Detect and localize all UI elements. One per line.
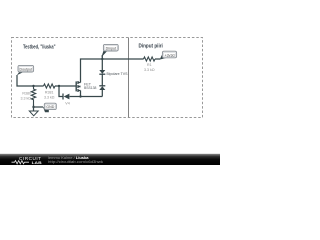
svg-text:Dinput piiri: Dinput piiri (139, 44, 164, 50)
divider line between Testbed and Dinput piiri (128, 38, 130, 118)
diode D1 bipolar TVS (99, 59, 128, 97)
wire from Doutput flag down and right to gate net (17, 75, 44, 86)
wire V4 branch down (59, 86, 63, 97)
svg-text:+3v3d: +3v3d (165, 53, 175, 57)
flag Dinput (101, 44, 118, 59)
svg-text:R381: R381 (45, 91, 54, 95)
resistor R1 (horizontal, Dinput piiri) (144, 57, 155, 72)
wire FET drain up and right to R1 (80, 91, 82, 97)
transistor Q1 FET BSS138 (76, 81, 96, 92)
wire diode to FET source node (74, 96, 102, 98)
resistor R380 (vertical) (21, 86, 36, 105)
resistor R381 (horizontal) (44, 84, 56, 100)
svg-text:3.3 kΩ: 3.3 kΩ (21, 96, 32, 100)
svg-text:LAB: LAB (32, 160, 42, 165)
flag Doutput (17, 65, 34, 75)
junction at V4 branch (58, 85, 60, 87)
svg-text:Testbed, "liuska": Testbed, "liuska" (23, 44, 56, 50)
wire R1 to +3v3 flag (155, 58, 160, 60)
svg-text:V4: V4 (65, 102, 69, 106)
flag GND (43, 103, 56, 112)
wire R380 bottom to ground / GND stub (33, 105, 35, 111)
svg-text:BSS138: BSS138 (84, 86, 97, 90)
footer bar (0, 154, 220, 165)
svg-text:Dinput: Dinput (106, 47, 116, 51)
svg-text:http://circuitlab.com/c6d3hwk: http://circuitlab.com/c6d3hwk (48, 160, 103, 164)
diode V4 (63, 94, 74, 106)
svg-text:Doutput: Doutput (20, 68, 33, 72)
flag +3v3d (160, 51, 177, 59)
CircuitLab logo (12, 156, 42, 165)
svg-text:3.3 kΩ: 3.3 kΩ (144, 68, 155, 72)
svg-text:R1: R1 (147, 63, 152, 67)
svg-text:Bipolare TVS: Bipolare TVS (107, 72, 129, 76)
ground symbol (29, 111, 38, 116)
junction at FET source (79, 95, 81, 97)
dashed enclosure box (outer) (12, 38, 203, 118)
junction at R380 bottom (32, 106, 34, 108)
svg-text:R380: R380 (22, 91, 31, 95)
junction at Dinput node (101, 58, 103, 60)
svg-text:3.3 kΩ: 3.3 kΩ (44, 95, 55, 99)
svg-text:GND: GND (46, 105, 54, 109)
wire R381 to FET gate (55, 85, 76, 87)
junction at gate wire / R380 top (32, 85, 34, 87)
